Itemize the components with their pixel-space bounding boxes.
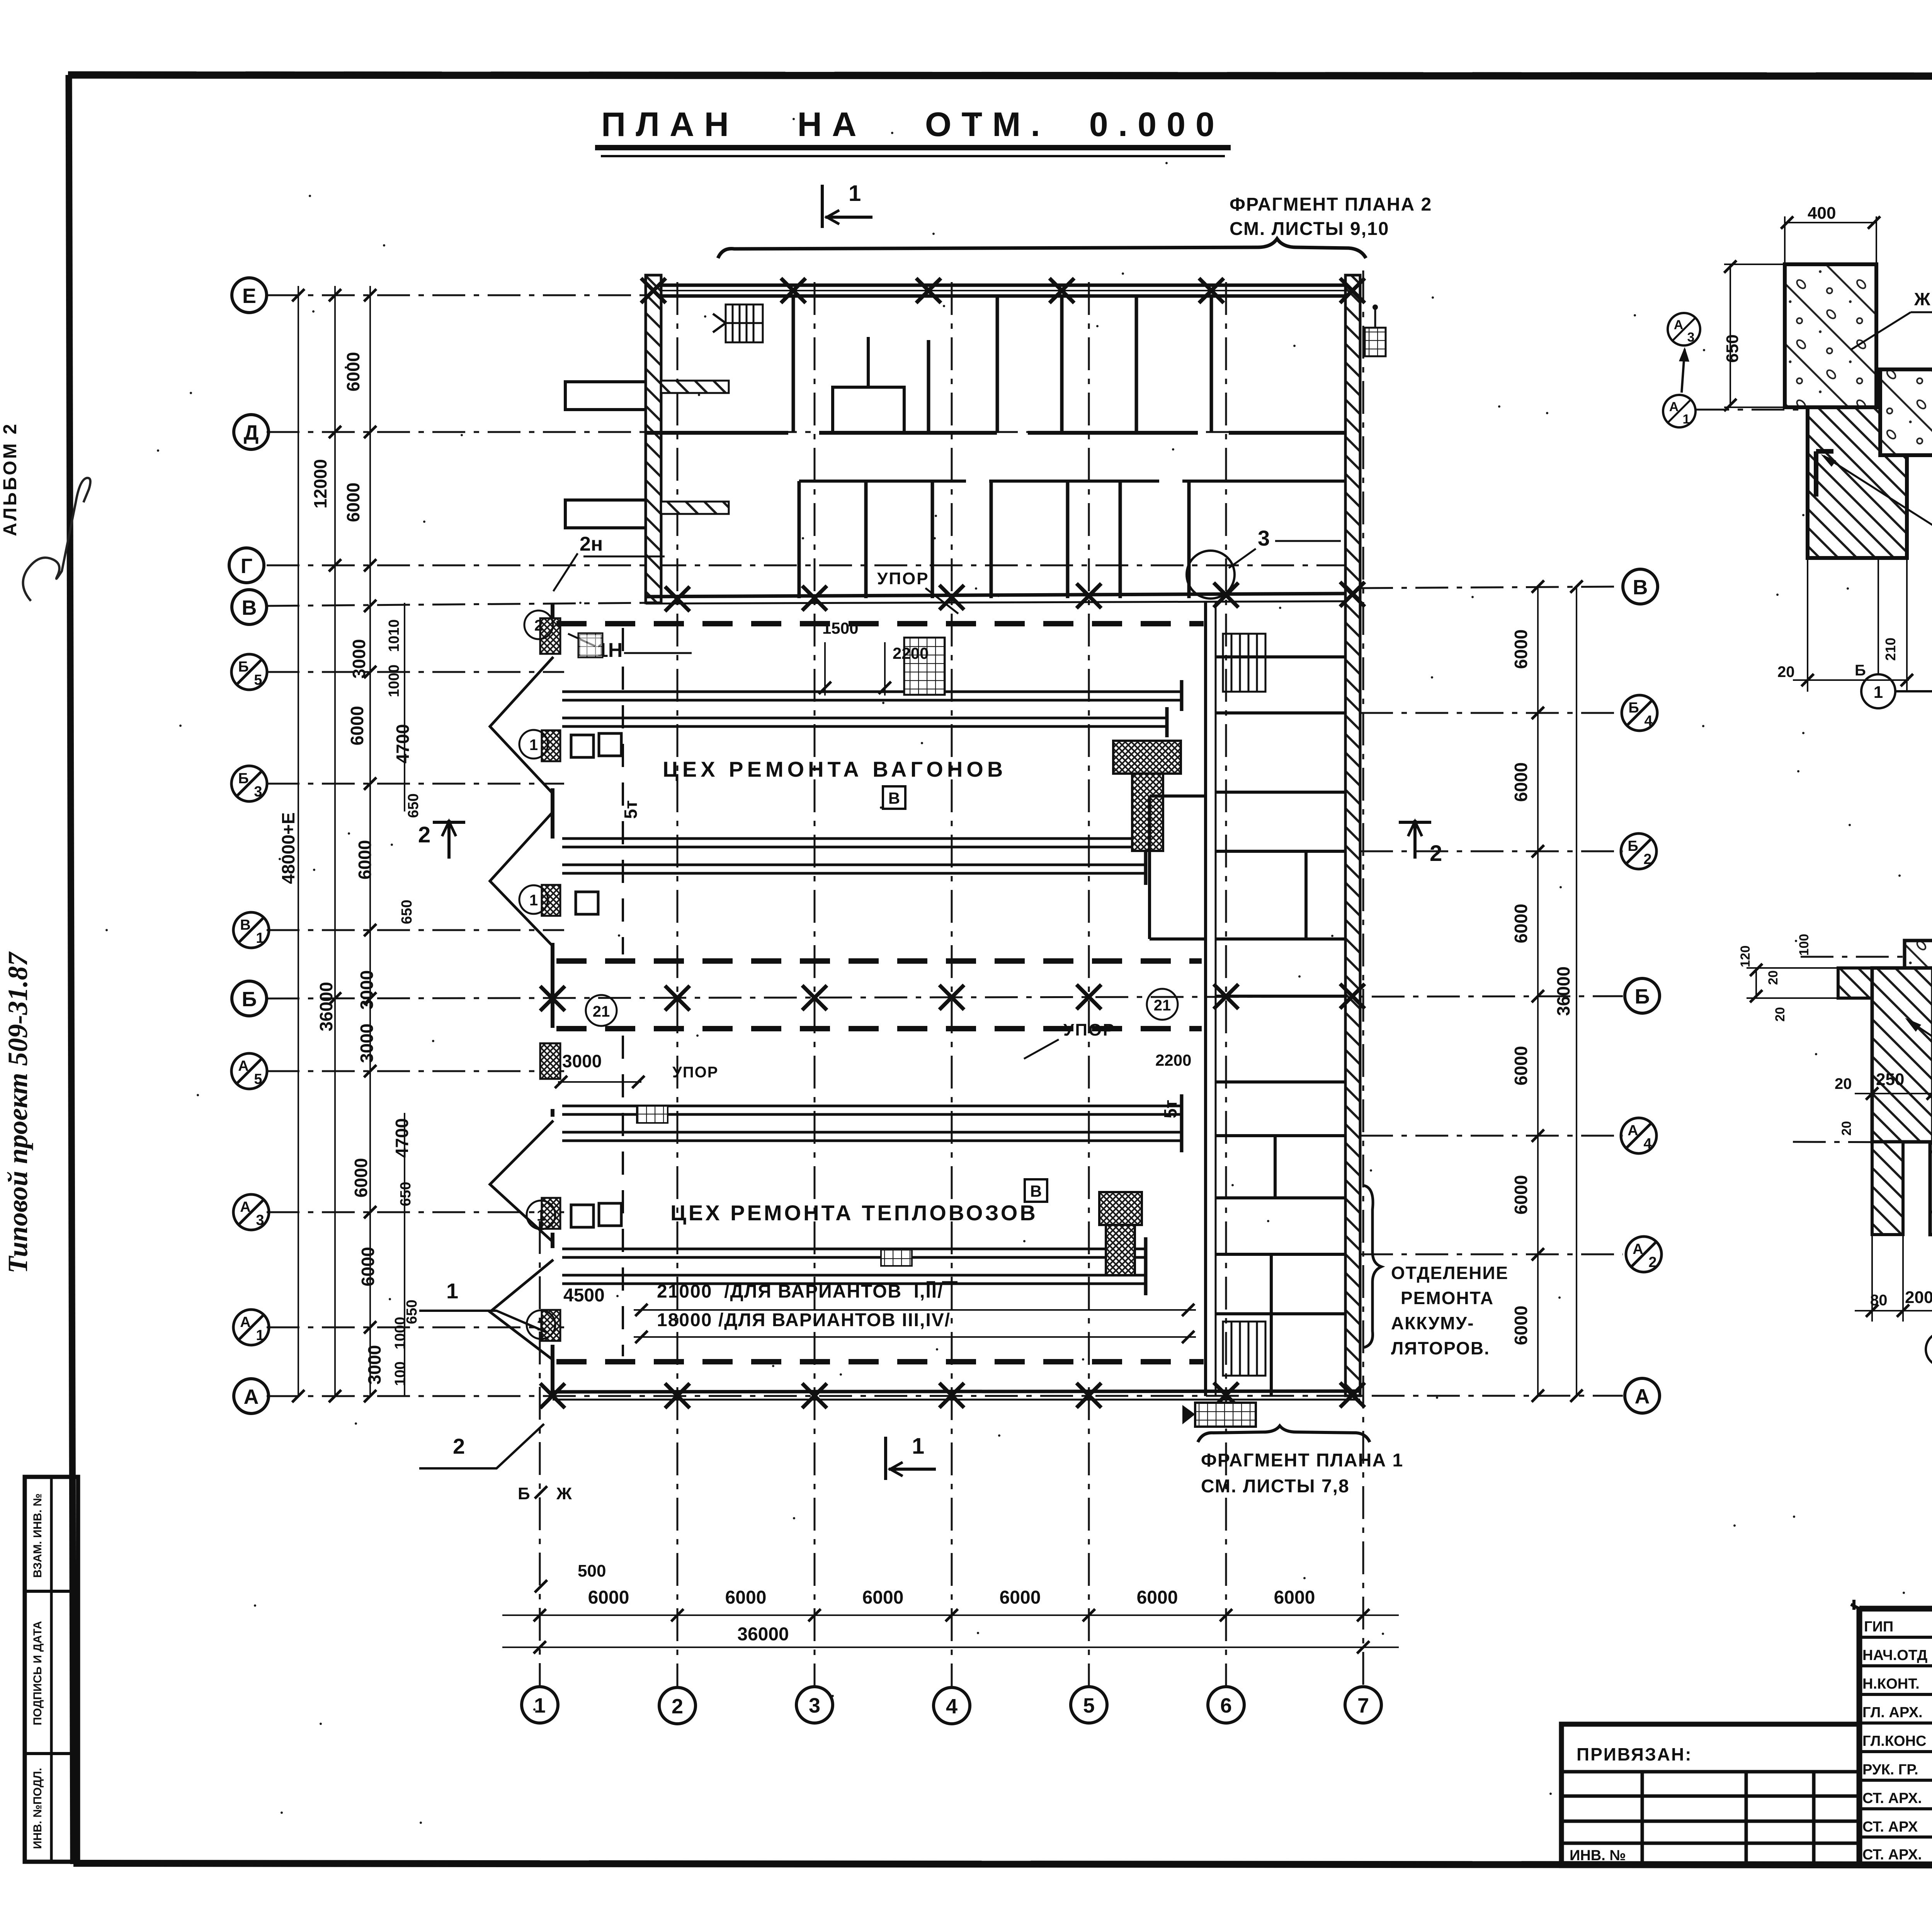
corridor wall of top block [799,480,1345,483]
svg-text:6000: 6000 [343,483,363,522]
svg-text:2200: 2200 [1155,1051,1191,1069]
svg-text:200: 200 [1905,1288,1932,1307]
svg-text:650: 650 [399,900,415,924]
rail track group 3 (hall2) [562,1094,1182,1152]
svg-text:1: 1 [256,1327,264,1344]
section mark 1 top [822,185,872,228]
svg-text:РЕМОНТА: РЕМОНТА [1401,1288,1494,1308]
svg-text:ГЛ.КОНС: ГЛ.КОНС [1862,1733,1926,1749]
svg-text:21: 21 [1154,997,1171,1014]
hall2 B box [1025,1179,1047,1202]
left rotated dimension texts [278,352,413,1385]
detail1 marker circle А/1 [1663,395,1696,427]
detail1 marker circle А/3 [1668,313,1700,345]
svg-text:АЛЬБОМ 2: АЛЬБОМ 2 [0,422,20,536]
section mark 2 right [1399,820,1431,859]
svg-text:Типовой проект 509-31.87: Типовой проект 509-31.87 [2,951,33,1273]
svg-text:4700: 4700 [393,724,413,764]
svg-text:3000: 3000 [364,1345,384,1385]
column marks on Б axis [540,984,1365,1011]
wall at end of hall1 tracks [1150,796,1206,939]
stairs in corridor top [1223,634,1265,692]
left split axis circles [231,654,269,1345]
svg-text:210: 210 [1883,638,1898,661]
hall1 gate door zigzag [490,657,553,947]
svg-text:6000: 6000 [1511,904,1531,943]
attachment box ПРИВЯЗАН [1561,1724,1859,1866]
svg-text:1000: 1000 [392,1317,408,1350]
right rotated dimension texts [1511,629,1573,1345]
svg-text:1: 1 [534,1694,546,1717]
hall1 B box [883,786,905,809]
svg-text:ПРИВЯЗАН:: ПРИВЯЗАН: [1577,1744,1692,1764]
svg-text:Б: Б [1855,662,1866,679]
svg-text:12000: 12000 [310,459,330,509]
svg-text:ФРАГМЕНТ ПЛАНА 1: ФРАГМЕНТ ПЛАНА 1 [1201,1450,1403,1471]
svg-text:6000: 6000 [1274,1587,1315,1608]
crane axis dashed vertical hall1 [622,628,624,954]
svg-text:3: 3 [254,784,262,800]
svg-text:В: В [1633,576,1648,599]
detail3 top stub wall [1838,968,1875,998]
svg-text:В: В [888,789,900,807]
crane runway dashed line hall2 top [556,1026,1202,1031]
svg-text:6000: 6000 [1511,1046,1531,1085]
vestibule stub wall lower [661,502,729,514]
building right outer wall (hatched) [1345,275,1360,1396]
svg-text:20: 20 [1773,1007,1787,1022]
svg-text:Б: Б [1628,700,1639,716]
svg-text:Е: Е [242,284,256,308]
svg-text:ИНВ. №: ИНВ. № [1570,1847,1626,1864]
svg-text:3000: 3000 [357,1024,377,1063]
svg-text:ГЛ. АРХ.: ГЛ. АРХ. [1862,1704,1923,1721]
left margin signature squiggle [23,478,90,601]
detail3 top concrete block [1905,941,1932,998]
right axis circles [1623,569,1660,1413]
svg-text:АККУМУ-: АККУМУ- [1391,1313,1474,1333]
svg-text:5т: 5т [1160,1100,1180,1118]
svg-text:1010: 1010 [386,619,402,652]
svg-text:ЦЕХ РЕМОНТА ТЕПЛОВОЗОВ: ЦЕХ РЕМОНТА ТЕПЛОВОЗОВ [670,1201,1038,1225]
section mark 2 left [433,820,465,859]
platform hatch on track 3 [637,1106,668,1123]
dim line under variants [634,1309,1196,1311]
svg-text:А: А [1633,1241,1643,1257]
svg-text:1: 1 [446,1279,458,1303]
svg-text:5: 5 [1083,1694,1095,1717]
svg-text:650: 650 [1723,334,1742,362]
svg-text:СТ. АРХ.: СТ. АРХ. [1862,1847,1922,1863]
svg-text:Б: Б [1635,985,1650,1008]
corridor left wall (vertical) [1206,601,1216,1396]
svg-text:6000: 6000 [358,1247,378,1286]
small escape ladder right of wall [1365,328,1386,356]
rail track group 4 (hall2) [562,1237,1146,1295]
detail1 brick wall [1808,407,1907,558]
svg-text:1: 1 [537,1207,545,1224]
svg-text:1: 1 [1683,412,1690,427]
detail1 axis А/1 dash-dot [1696,409,1932,411]
detail1 concrete gate frame block [1785,264,1876,407]
svg-text:А: А [1669,400,1679,414]
svg-text:2: 2 [1430,841,1442,866]
crane runway dashed line hall1 bottom [556,958,1202,964]
left dimension chain verticals [298,286,405,1396]
detail1 section circles 1-2 [1878,558,1879,674]
detail3 lower concrete block [1930,1143,1932,1235]
rail track group 2 (hall1) [562,827,1146,885]
gate circle 1 (second) [519,885,548,914]
svg-text:ВЗАМ. ИНВ. №: ВЗАМ. ИНВ. № [31,1493,44,1578]
svg-text:18000 /ДЛЯ ВАРИАНТОВ III,IV/: 18000 /ДЛЯ ВАРИАНТОВ III,IV/ [657,1310,951,1330]
svg-text:120: 120 [1738,946,1753,968]
svg-text:А: А [238,1058,248,1074]
detail3 lower wall [1872,1142,1903,1235]
svg-text:Б: Б [242,988,257,1011]
svg-text:ЦЕХ РЕМОНТА ВАГОНОВ: ЦЕХ РЕМОНТА ВАГОНОВ [663,757,1007,781]
svg-text:2: 2 [534,617,543,634]
detail3 axis Г [1801,956,1932,958]
vestibule stub wall upper [661,381,729,393]
svg-text:2200: 2200 [893,644,929,662]
svg-text:6000: 6000 [347,706,367,745]
svg-text:1: 1 [256,930,264,946]
svg-text:2: 2 [1643,851,1651,867]
detail1 concrete block 2 [1880,369,1932,455]
hall left gate wall segments [551,603,554,1396]
svg-text:В: В [240,917,250,933]
stop ramp with grid near track1 end [904,638,945,695]
svg-text:100: 100 [1797,934,1811,956]
svg-text:2: 2 [672,1695,683,1718]
door squares at gate 3 [571,1205,594,1227]
svg-text:Ж: Ж [556,1484,572,1503]
svg-text:1: 1 [1874,683,1883,702]
svg-text:650: 650 [398,1182,414,1206]
horizontal axis lines [267,295,1623,1396]
svg-text:2: 2 [1648,1254,1656,1271]
svg-text:4: 4 [946,1695,957,1718]
svg-text:6000: 6000 [1000,1587,1041,1608]
svg-text:А: А [1628,1123,1638,1139]
svg-text:РУК. ГР.: РУК. ГР. [1862,1762,1918,1778]
svg-text:20: 20 [1839,1121,1854,1136]
svg-text:Б: Б [518,1484,530,1503]
detail3 vertical brick wall [1872,968,1932,1142]
svg-text:НАЧ.ОТД: НАЧ.ОТД [1862,1647,1927,1664]
left dim ticks [292,289,376,1402]
svg-text:Б: Б [1628,838,1638,854]
fragment note 1 (bottom) [1198,1426,1370,1442]
svg-text:ГИП: ГИП [1864,1619,1893,1635]
column marks on В wall [665,582,1365,611]
bottom axis circles 1-7 [522,1687,1381,1724]
svg-text:48000+Е: 48000+Е [278,812,298,884]
vertical axis lines columns 1-7 [540,270,1363,1686]
detail1 corner bracket МС [1816,451,1833,497]
left porch lower [565,500,646,528]
svg-text:ПЛАН НА ОТМ. 0.000: ПЛАН НА ОТМ. 0.000 [601,105,1225,143]
svg-text:Б: Б [238,771,248,787]
brace over plan top [718,239,1366,258]
T-shaped pillar block hall1 (crosshatched) [1113,741,1181,851]
svg-text:4500: 4500 [563,1285,605,1306]
svg-text:5: 5 [254,1071,262,1087]
gate circle 1 (first) [519,730,548,759]
staff roles [1862,1619,1927,1863]
svg-text:36000: 36000 [316,982,336,1031]
svg-text:400: 400 [1808,204,1836,223]
left porch upper [565,382,646,410]
stairs in top block [713,304,763,342]
svg-text:3000: 3000 [349,639,369,679]
svg-text:4: 4 [1643,1136,1651,1152]
door pair squares at gate 2н [579,634,602,657]
svg-text:6000: 6000 [355,840,375,879]
svg-text:7: 7 [1357,1694,1369,1717]
svg-text:6000: 6000 [1511,1175,1531,1214]
svg-text:1500: 1500 [822,619,858,637]
svg-text:4: 4 [1644,713,1652,729]
svg-text:УПОР: УПОР [1063,1021,1116,1039]
door square at gate 2 [576,892,598,914]
svg-text:6000: 6000 [725,1587,767,1608]
bottom dimension lines [502,1615,1399,1647]
svg-text:6000: 6000 [588,1587,629,1608]
interior wall along Д [646,431,1345,435]
left axis circles [229,278,269,1414]
title block staff grid [1859,1609,1932,1866]
svg-text:2н: 2н [580,533,603,555]
column marks on А wall [540,1383,1365,1408]
building bottom wall on axis А [553,1391,1360,1400]
svg-text:36000: 36000 [1553,966,1573,1016]
exterior ramp bottom (grid hatch) [1195,1403,1256,1427]
svg-text:6000: 6000 [351,1158,371,1197]
svg-text:3000: 3000 [357,970,377,1010]
svg-text:650: 650 [405,793,422,818]
hall2 gate door zigzag [490,1121,553,1360]
gate circle 2 top [524,611,553,639]
svg-text:5т: 5т [621,800,641,819]
svg-text:250: 250 [1876,1070,1904,1089]
rail track group 1 (hall1) [562,680,1182,737]
svg-text:Г: Г [241,555,253,578]
top block outer top wall [645,285,1357,296]
svg-text:Б: Б [238,659,248,675]
svg-text:2: 2 [418,822,430,847]
svg-text:В: В [242,596,257,619]
svg-text:6: 6 [1220,1694,1232,1717]
svg-text:А: А [240,1199,250,1215]
title block outer [1851,1600,1932,1866]
left margin inventory strip [25,1477,78,1862]
gate post pads on left wall [540,618,560,1341]
gate circle 1 (fourth) [527,1310,555,1339]
svg-text:6000: 6000 [1511,1306,1531,1345]
stairs in right section bottom [1223,1322,1265,1376]
svg-text:5: 5 [254,672,262,688]
svg-text:А: А [1635,1385,1650,1408]
svg-text:1: 1 [912,1434,924,1459]
svg-text:А: А [240,1314,250,1330]
svg-text:ИНВ. №ПОДЛ.: ИНВ. №ПОДЛ. [31,1768,44,1849]
svg-text:А: А [1674,318,1684,332]
svg-text:ОТДЕЛЕНИЕ: ОТДЕЛЕНИЕ [1391,1263,1509,1283]
svg-text:Д: Д [244,421,259,444]
opening mark circle 21 hall1 [586,995,617,1026]
svg-text:ФРАГМЕНТ ПЛАНА 2: ФРАГМЕНТ ПЛАНА 2 [1230,194,1432,215]
svg-text:3: 3 [1258,526,1270,550]
svg-text:А: А [244,1385,259,1408]
detail3 axis В [1793,1142,1932,1143]
pillar block hall2 (crosshatched) [1099,1192,1142,1275]
lower room partitions of top block [799,481,1189,598]
svg-text:6000: 6000 [343,352,363,391]
platform hatch on track 4 [881,1249,912,1266]
crane runway dashed line hall2 bottom [556,1359,1204,1364]
svg-text:6000: 6000 [1511,762,1531,802]
svg-text:6000: 6000 [1137,1587,1178,1608]
svg-text:6000: 6000 [1511,629,1531,669]
svg-text:В: В [1030,1182,1042,1200]
svg-text:3: 3 [256,1212,264,1228]
svg-text:4700: 4700 [392,1118,412,1158]
svg-text:3000: 3000 [562,1051,602,1071]
svg-text:36000: 36000 [737,1624,789,1645]
door squares at gate 1 [571,735,594,757]
column marks on top wall [641,278,1365,303]
svg-text:1000: 1000 [386,665,402,697]
svg-text:20: 20 [1835,1075,1852,1092]
svg-text:УПОР: УПОР [877,569,929,588]
svg-text:20: 20 [1777,663,1795,680]
detail1 arrow А/1 to А/3 [1682,349,1685,393]
crane runway dashed line hall1 top [556,621,1204,626]
top block left wall (hatched) [646,275,661,603]
svg-text:3: 3 [1687,330,1695,345]
right section room partitions [1216,657,1345,1396]
svg-text:2: 2 [453,1434,465,1458]
furniture П shape in top block room [833,337,904,431]
upper room partitions [793,296,1211,433]
svg-text:3: 3 [809,1694,820,1717]
accumulator dept brace [1364,1186,1381,1347]
svg-text:6000: 6000 [862,1587,904,1608]
detail3 top small dims [1738,934,1811,1022]
svg-text:ЛЯТОРОВ.: ЛЯТОРОВ. [1391,1338,1490,1358]
svg-text:УПОР: УПОР [672,1064,718,1081]
svg-text:21: 21 [593,1003,610,1020]
svg-text:21000 /ДЛЯ ВАРИАНТОВ I,II/: 21000 /ДЛЯ ВАРИАНТОВ I,II/ [657,1281,943,1302]
svg-text:СТ. АРХ: СТ. АРХ [1862,1819,1918,1835]
right dimension chain verticals [1538,587,1577,1396]
svg-text:20: 20 [1766,970,1781,985]
opening mark circle 21 hall2 [1147,989,1178,1020]
svg-text:1: 1 [849,181,861,206]
top block bottom wall on axis В [646,594,1345,604]
svg-text:100: 100 [392,1361,408,1386]
svg-text:Н.КОНТ.: Н.КОНТ. [1862,1676,1920,1692]
svg-text:Ж.Б.РАМА ВОРОТ: Ж.Б.РАМА ВОРОТ [1914,289,1932,309]
svg-text:500: 500 [578,1561,606,1580]
svg-text:1: 1 [529,892,538,909]
section mark 1 bottom [886,1437,936,1480]
svg-text:СМ. ЛИСТЫ 7,8: СМ. ЛИСТЫ 7,8 [1201,1476,1350,1497]
svg-text:СМ. ЛИСТЫ 9,10: СМ. ЛИСТЫ 9,10 [1230,219,1389,239]
crane axis dashed vertical hall2 [622,1036,624,1356]
svg-text:1: 1 [529,737,538,754]
svg-text:ПОДПИСЬ И ДАТА: ПОДПИСЬ И ДАТА [31,1621,44,1725]
gate circle 1 (third) [527,1201,555,1229]
svg-text:СТ. АРХ.: СТ. АРХ. [1862,1790,1922,1806]
